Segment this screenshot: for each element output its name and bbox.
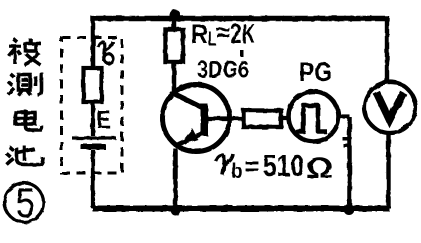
label rb (script r) — [216, 154, 234, 175]
svg-text:2: 2 — [231, 18, 242, 49]
badge circled 5 — [5, 183, 44, 222]
scan speck above 6 — [240, 50, 244, 57]
wire: RL top stub — [172, 18, 177, 30]
transistor Q1 collector diagonal — [174, 94, 203, 108]
transistor Q1 emitter arrowhead — [179, 129, 198, 146]
wire: right rail from top corner down to voltmeter — [385, 16, 389, 83]
resistor r0 body — [84, 68, 102, 102]
wire: RL bottom stub down to transistor collector — [172, 62, 177, 92]
svg-text:510: 510 — [263, 148, 304, 183]
transistor Q1 3DG6 circle — [163, 85, 230, 152]
svg-text:R: R — [191, 19, 208, 50]
transistor Q1 emitter diagonal — [178, 134, 201, 145]
svg-text:K: K — [242, 18, 255, 49]
text 被 (character: bei) — [9, 39, 42, 66]
label r0 (script r) — [98, 42, 113, 62]
text 池 (character: chi) — [7, 146, 44, 165]
text 电 (character: dian) — [16, 110, 42, 131]
svg-text:L: L — [208, 29, 216, 51]
resistor rb body — [244, 111, 282, 128]
node: junction of emitter on bottom rail — [171, 205, 181, 216]
battery E long plate — [72, 136, 116, 139]
wire: left rail top segment (top rail down to r0) — [91, 16, 96, 68]
svg-text:5: 5 — [16, 179, 35, 226]
resistor RL body — [166, 30, 184, 63]
wire: rb right lead to PG — [281, 116, 290, 120]
generator PG circle — [289, 92, 339, 142]
node: junction of RL branch on top rail — [170, 10, 181, 22]
node: junction of PG leg on bottom rail — [344, 204, 355, 215]
wire: battery to bottom rail — [91, 150, 95, 208]
text 测 (character: ce) — [8, 73, 42, 96]
svg-text:PG: PG — [299, 57, 332, 87]
label r0 subscript 0 — [104, 54, 113, 63]
scan speck near PG leg lower — [343, 144, 349, 148]
scan speck near PG leg — [343, 137, 348, 141]
wire: top rail from battery box to voltmeter corner — [93, 16, 389, 21]
wire: r0 bottom to battery — [91, 102, 95, 136]
wire: bottom rail — [93, 206, 390, 212]
wire: PG leg down to bottom rail — [347, 117, 352, 208]
transistor Q1 base bar — [201, 104, 209, 136]
svg-text:=: = — [245, 151, 260, 181]
transistor Q1 base lead to rb — [208, 116, 244, 120]
voltmeter V letter — [377, 93, 404, 121]
svg-text:Ω: Ω — [306, 152, 333, 185]
wire: emitter lead down to bottom rail — [173, 149, 178, 209]
battery box dashed outline — [62, 38, 123, 174]
svg-text:E: E — [97, 106, 111, 134]
svg-text:b: b — [232, 160, 243, 183]
svg-text:≈: ≈ — [216, 17, 230, 47]
wire: PG right lead — [339, 114, 350, 118]
generator PG pulse symbol — [296, 106, 328, 132]
voltmeter V circle — [365, 82, 416, 133]
svg-text:3DG6: 3DG6 — [197, 57, 249, 84]
battery E short plate — [81, 144, 106, 150]
wire: voltmeter bottom lead to bottom rail — [386, 133, 390, 208]
